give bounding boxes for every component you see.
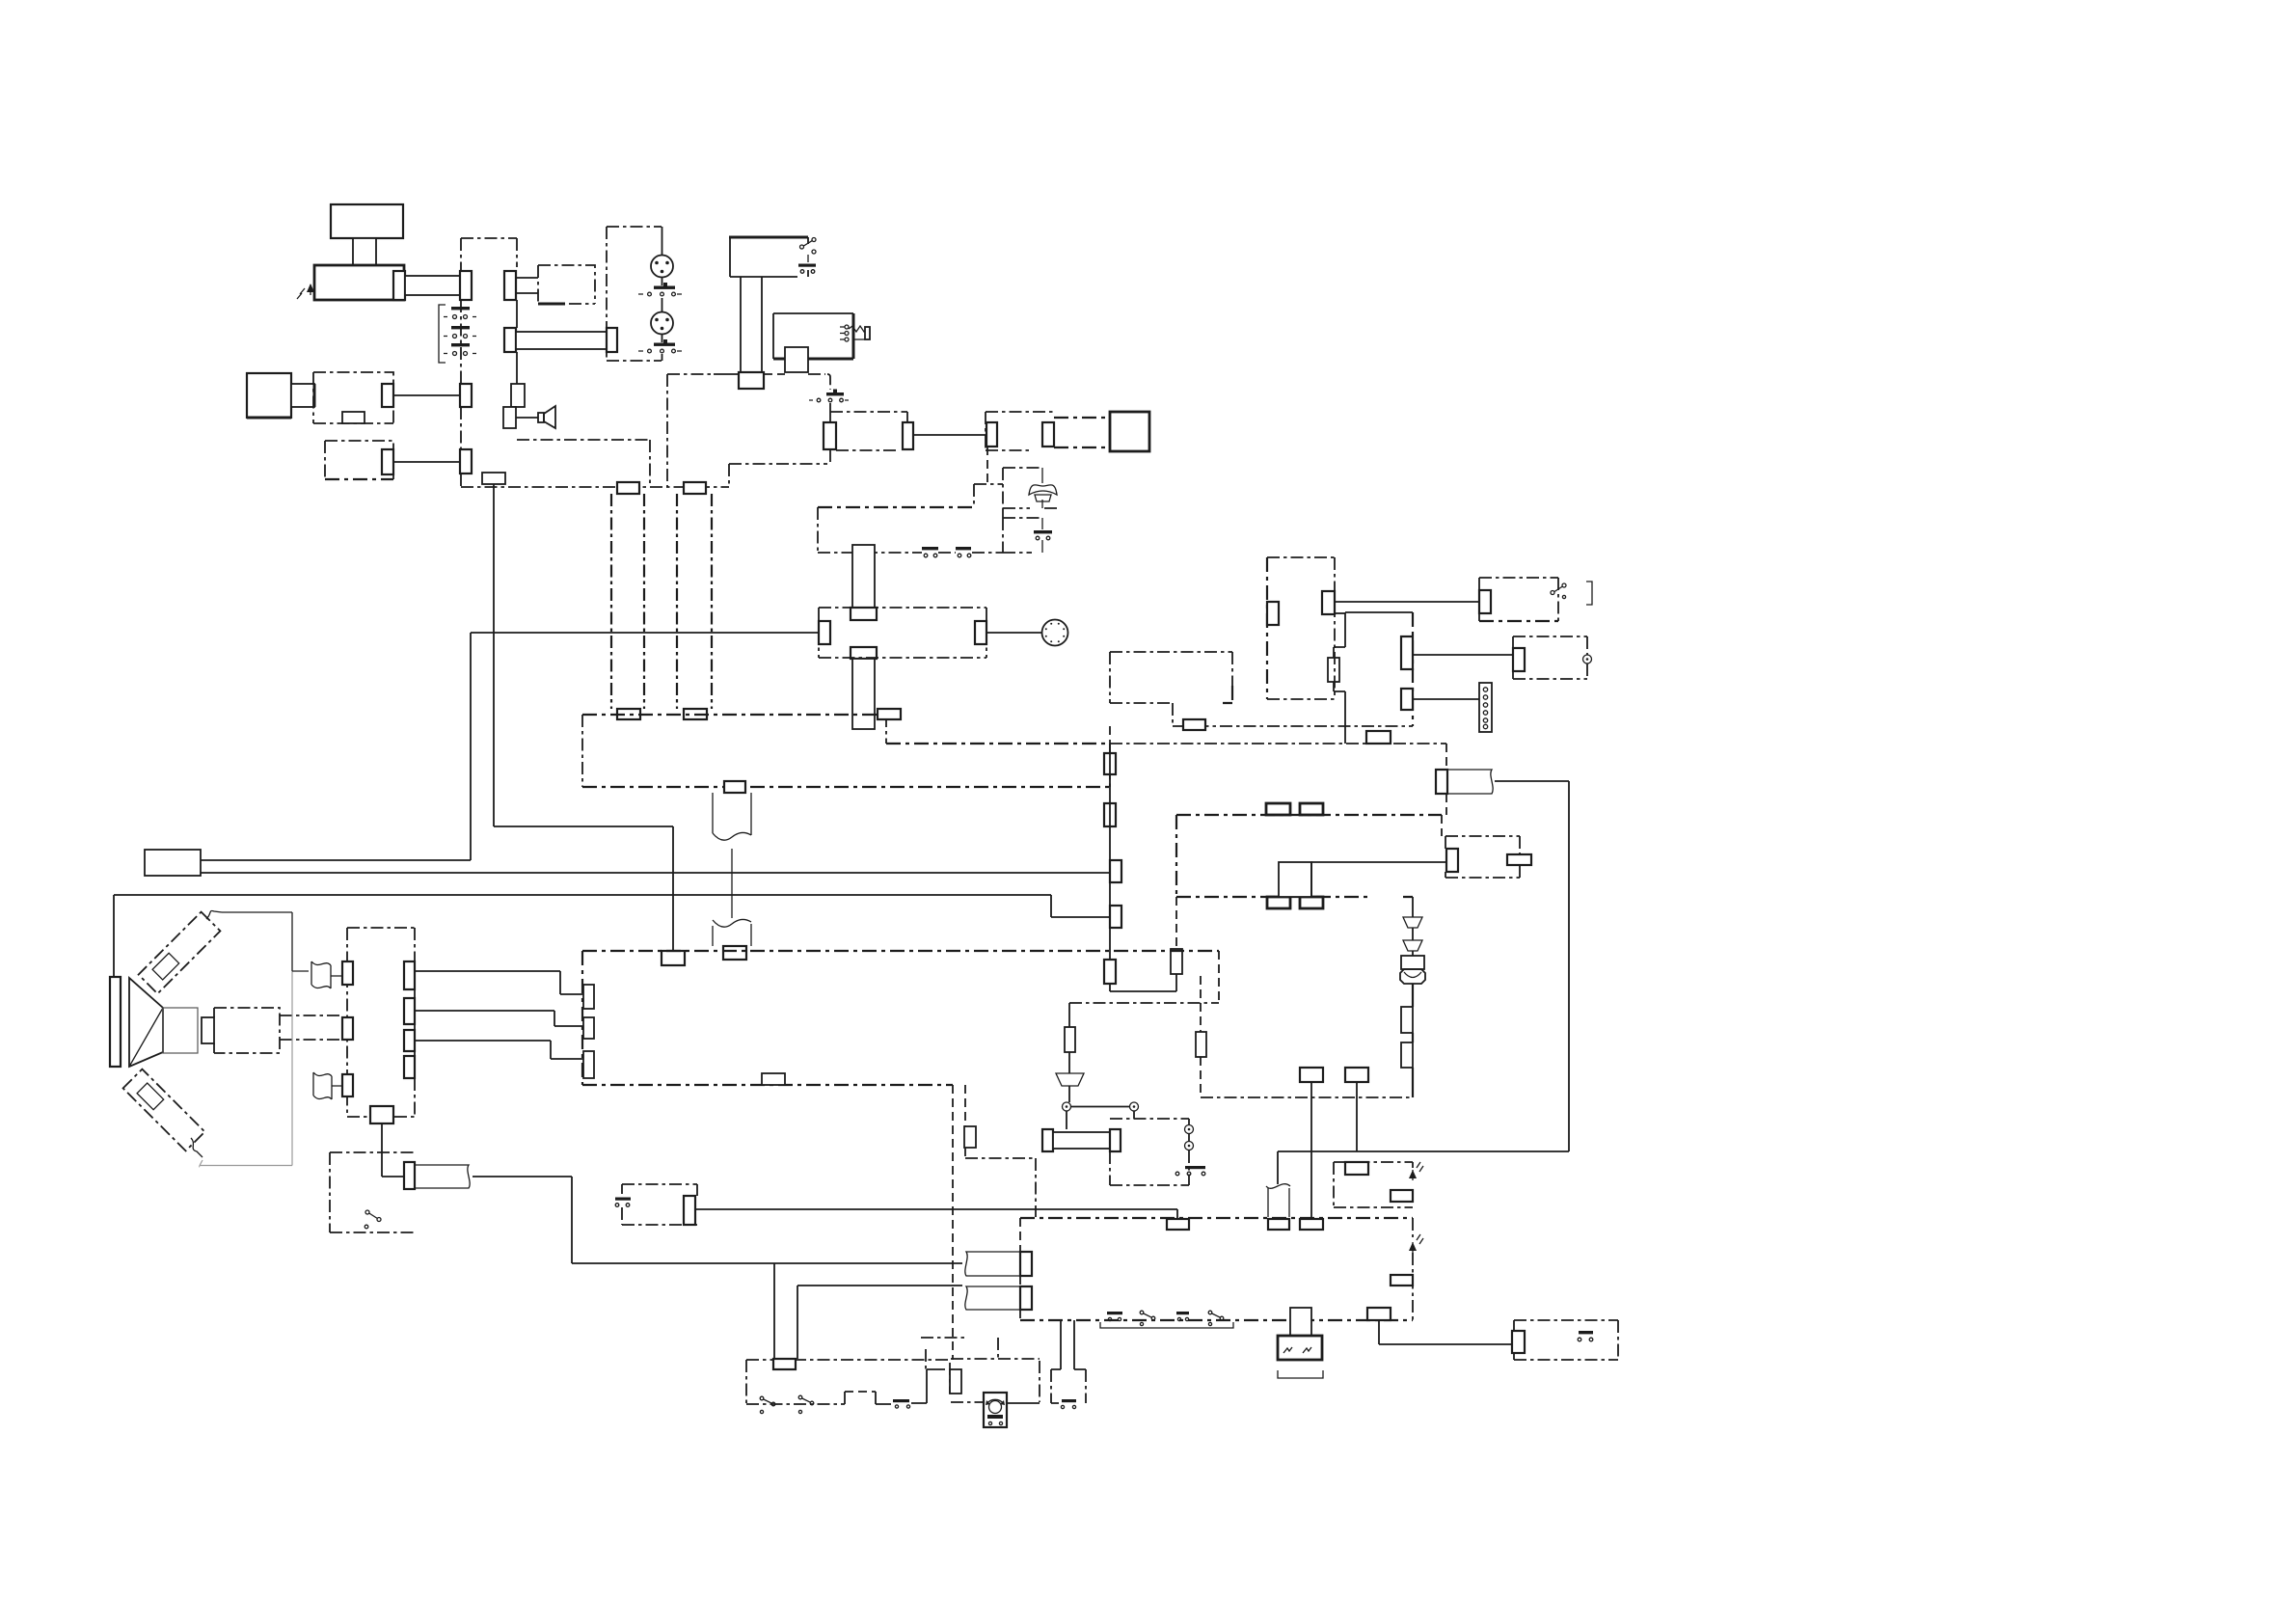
speaker PCB dash box DB1	[830, 412, 907, 450]
dash-dot line y1138	[1201, 1096, 1413, 1098]
panel connector L2	[342, 1017, 353, 1040]
wire CB15 to header	[1413, 698, 1479, 700]
XLR jack J1	[651, 256, 673, 278]
indicator panel box with LED	[314, 265, 404, 300]
driver transistor block	[1279, 862, 1311, 897]
piezo tweeter bottom	[123, 1069, 205, 1157]
mute PCB dash box	[1003, 518, 1042, 553]
wire M5 to AC box B7	[1379, 1320, 1512, 1344]
step link with switch SW22	[845, 1369, 945, 1408]
harness W12 into M5	[965, 1286, 1032, 1310]
panel connector L1	[342, 961, 353, 985]
chain link	[1412, 951, 1414, 956]
torn cable into M5	[1266, 1184, 1290, 1217]
monitor speaker SP1	[538, 406, 555, 428]
dash-dot line y573	[818, 552, 1003, 554]
connector DB3 left	[819, 621, 830, 644]
connector at amp box top	[662, 951, 685, 965]
switch SW2a	[638, 283, 682, 296]
connector M5 right a	[1391, 1275, 1413, 1286]
bracket right of B1	[1586, 582, 1592, 605]
switch SW6b	[956, 547, 971, 557]
harness dash-dot run top	[461, 238, 517, 271]
dash corner x848	[817, 507, 819, 553]
jack PCB right with switch SW23	[1051, 1369, 1086, 1409]
meter PCB dash box	[950, 1359, 1040, 1402]
jack PCB dash box	[538, 265, 595, 304]
connector on x1245	[1196, 1032, 1206, 1057]
harness W1 connector right	[460, 271, 472, 300]
phones PCB dash box B2	[1513, 636, 1587, 679]
harness W1 connector left	[393, 271, 405, 300]
thermal PCB dash box DB5	[1445, 836, 1520, 878]
pilot PCB dash box above M5	[1334, 1162, 1413, 1207]
rotary switch VR1	[1042, 620, 1068, 646]
preamp link corner	[1345, 612, 1413, 726]
dash-dot line y753	[1173, 725, 1413, 727]
connector right edge CB13	[1110, 906, 1121, 928]
connector on line y753	[1183, 719, 1205, 730]
switch row: toggle SWd	[1208, 1311, 1224, 1325]
wire CB14 to B2	[1413, 654, 1513, 656]
connector B7	[1512, 1331, 1525, 1353]
connector M5 top c	[1300, 1219, 1323, 1230]
switch SW6a	[922, 547, 938, 557]
toggle switch in B8	[365, 1210, 381, 1229]
switch row: toggle SWb	[1140, 1311, 1155, 1325]
switch row in M5: switch SWa	[1107, 1312, 1122, 1321]
slide switch SW1b	[444, 326, 476, 338]
connector B3 left	[1267, 602, 1279, 625]
woofer magnet	[163, 1008, 198, 1053]
crossover dash links	[280, 1015, 342, 1040]
connector M4 right	[1104, 960, 1116, 984]
fuse F2	[903, 422, 913, 449]
capacitor block	[1401, 956, 1424, 969]
connector DB2 left	[986, 422, 997, 447]
dash-dot line y526	[818, 506, 974, 508]
link DB2 down	[974, 447, 1003, 507]
harness W11 into M5	[965, 1252, 1032, 1276]
chain top link	[1412, 897, 1414, 917]
connector on main board bottom	[724, 781, 745, 793]
wire XLR chain	[662, 227, 663, 361]
phone jack	[840, 325, 870, 341]
connector M4 left a	[583, 985, 594, 1009]
torn cable end connector	[723, 946, 746, 960]
resistor chain x1220	[1110, 897, 1182, 991]
panel connector R2	[404, 998, 415, 1024]
main harness dash-dot line y505	[461, 486, 729, 488]
power transformer top box	[331, 204, 403, 238]
panel connector R1	[404, 961, 415, 989]
relay PCB dash box DB2	[986, 412, 1054, 450]
footswitch PCB dash box B1	[1479, 578, 1558, 621]
switch row: switch SWc	[1176, 1312, 1189, 1321]
connector CB14	[1401, 636, 1413, 669]
level meter	[984, 1393, 1007, 1427]
diode D11	[1403, 940, 1422, 951]
connector M4 left c	[583, 1051, 594, 1078]
LED D20 on M5 edge	[1409, 1234, 1423, 1253]
chassis panel box	[729, 237, 808, 277]
panel bottom connector	[370, 1106, 393, 1123]
harness column end connector	[739, 372, 764, 389]
wire meter right	[1007, 1402, 1040, 1404]
dash-dot link y481	[729, 449, 830, 487]
wire DB3 to rotary	[986, 632, 1041, 634]
connector M5 bottom b	[1367, 1308, 1391, 1320]
harness W2 left connector	[504, 328, 516, 352]
harness W2 right connector	[607, 328, 617, 352]
wire W10 to M5	[473, 1177, 962, 1263]
GEQ PCB dash box DB4	[1110, 652, 1232, 726]
connector CN3	[382, 449, 393, 474]
connector DB2 right	[1042, 422, 1054, 447]
toggle SW20	[760, 1396, 775, 1413]
wire piezo bottom (grey)	[200, 971, 292, 1167]
connector pilot PCB right	[1391, 1190, 1413, 1202]
slide switch SW1c	[444, 343, 476, 356]
connector M3 bottom a	[1267, 897, 1290, 908]
connector B3 right	[1322, 591, 1335, 614]
switch on B6	[615, 1198, 631, 1207]
corner x1500 down	[1445, 744, 1447, 815]
column T1	[851, 545, 877, 620]
vertical x1245	[1200, 976, 1202, 1097]
amp heatsink block	[1110, 412, 1149, 451]
capacitor C11	[1401, 1042, 1413, 1068]
switch bracket	[439, 305, 446, 363]
footswitch jack PCB dash box	[1110, 1119, 1189, 1185]
stem from M5 to jack PCB	[1061, 1320, 1074, 1369]
junction box left	[145, 850, 201, 876]
connector CB4 on line	[482, 473, 505, 484]
panel connector L3	[342, 1074, 353, 1096]
M5 dash box	[1020, 1218, 1413, 1320]
right rail vertical	[1568, 781, 1570, 1151]
long wire y1254	[695, 1209, 1177, 1219]
long wire y656	[201, 633, 819, 860]
XLR jack J2	[651, 312, 673, 335]
harness pair B end connector	[684, 709, 707, 719]
connector pair above M5 a	[1300, 1068, 1323, 1082]
pin header	[1479, 683, 1492, 732]
transformer stem	[353, 238, 376, 271]
AC select dash box B7	[1514, 1320, 1618, 1360]
switch row bracket	[1100, 1322, 1233, 1328]
resistor ladder left	[1334, 612, 1345, 744]
connector M3 bottom b	[1300, 897, 1323, 908]
wire to monitor speaker	[516, 417, 538, 419]
LED D1	[297, 284, 314, 299]
double harness to amp block	[1054, 418, 1110, 447]
switch SW2b	[638, 339, 682, 353]
dash-dot line y771 right	[1110, 743, 1446, 744]
wire W8 to right rail	[1495, 780, 1569, 782]
speaker baffle	[110, 977, 121, 1067]
connector CB15	[1401, 689, 1413, 710]
bus wire A	[201, 872, 1110, 874]
connector M4 left b	[583, 1017, 594, 1039]
connector M3 top a	[1266, 803, 1290, 815]
wire panel bottom	[382, 1123, 404, 1177]
connector DB5 right	[1507, 854, 1531, 865]
effects PCB dash box B3	[1267, 557, 1335, 699]
resistor R10	[1328, 658, 1339, 682]
connector right edge CB11	[1104, 803, 1116, 826]
mains transformer	[1278, 1308, 1323, 1378]
harness pair B verticals	[677, 494, 712, 709]
wires speaker jacks to M4	[415, 971, 583, 1059]
inlet connector	[291, 384, 314, 407]
wire F2 to DB2	[913, 434, 986, 436]
connector B2 left	[1513, 648, 1525, 671]
wire bus from CB4 down	[494, 484, 673, 951]
connector CN1	[382, 384, 393, 407]
bus wire B	[114, 895, 1110, 977]
connector CB6	[684, 482, 706, 494]
connector CB3	[503, 407, 516, 428]
column T2	[851, 647, 877, 729]
panel box M6L	[746, 1360, 952, 1404]
woofer connector	[202, 1017, 214, 1043]
connector CN4	[460, 449, 472, 474]
output board dash box M4	[582, 951, 1219, 1085]
main board dash box	[582, 715, 1110, 787]
LED D21	[1409, 1162, 1423, 1180]
dash-dot corner x692	[667, 374, 714, 487]
toggle switch in B1	[1551, 583, 1566, 599]
wire CN1	[393, 394, 460, 396]
chain bottom lead	[1412, 1068, 1414, 1097]
piezo tweeter top	[139, 910, 222, 993]
torn cable down from main board	[713, 793, 751, 946]
connector M3 top b	[1300, 803, 1323, 815]
resistor R20 chain	[1056, 1003, 1084, 1102]
wire right rail to torn cable	[1278, 1151, 1569, 1184]
connector CN2	[460, 384, 472, 407]
torn lead at L3	[313, 1072, 342, 1099]
pilot lamp	[1400, 969, 1425, 984]
footswitch dash box B6	[622, 1184, 697, 1225]
slide switch SW1a	[444, 307, 476, 319]
wire CN3	[393, 461, 460, 463]
connector on line y771	[1366, 731, 1391, 744]
connector CB1	[504, 271, 516, 300]
staircase links above panel	[921, 1338, 998, 1369]
harness column	[741, 277, 762, 372]
chain thick lead	[1412, 984, 1414, 1007]
toggle SW21	[798, 1395, 814, 1413]
horn tweeter	[1029, 468, 1057, 508]
torn lead to jack panel	[292, 961, 342, 988]
connector M4 bottom	[762, 1073, 785, 1085]
connector on main board top	[878, 709, 901, 719]
jack on B2 right	[1583, 655, 1592, 663]
M4 descent chain	[953, 1085, 1036, 1360]
connector CB5	[617, 482, 639, 494]
switch SW4	[809, 390, 849, 402]
power PCB dash box	[313, 372, 393, 423]
woofer cone	[129, 978, 163, 1067]
harness W10	[404, 1162, 470, 1189]
wire x536 vertical	[516, 300, 518, 384]
power amp dash box M3	[1176, 815, 1442, 897]
harness pair A end connector	[617, 709, 640, 719]
input jack dash-dot enclosure	[607, 227, 662, 361]
selector PCB dash box DB3	[819, 608, 986, 658]
wire from connector a down	[1310, 1082, 1312, 1219]
harness dash-dot column x478	[460, 300, 462, 487]
x1151 vertical seam	[1109, 726, 1111, 991]
aux PCB dash box	[325, 441, 393, 479]
fuse F1	[824, 422, 836, 449]
connector B1 left	[1479, 590, 1491, 613]
dash corner x861	[827, 374, 830, 390]
dash-dot link y456	[517, 440, 650, 487]
AC inlet box	[247, 373, 291, 418]
wires CB1 to jack PCB	[516, 278, 538, 293]
wire B3 lower stub	[1335, 612, 1345, 614]
wire to fuse	[829, 403, 831, 422]
harness W8 with break	[1436, 770, 1493, 794]
switch on footswitch PCB	[1175, 1166, 1205, 1176]
capacitor C10	[1401, 1007, 1413, 1033]
connector pair above M5 b	[1345, 1068, 1368, 1082]
switch in B7	[1578, 1331, 1593, 1341]
panel connector R4	[404, 1056, 415, 1078]
panel connector R3	[404, 1030, 415, 1051]
speaker jack panel dash box	[347, 928, 415, 1117]
wire under jack plate	[764, 373, 825, 375]
connector DB3 right	[975, 621, 986, 644]
wire y894 to DB5	[1311, 861, 1446, 863]
connector B6	[684, 1196, 695, 1225]
aux input dash box B8	[330, 1152, 415, 1232]
jack plate sub connector	[785, 347, 808, 372]
jacks on footswitch PCB	[1185, 1125, 1194, 1150]
woofer network dash box	[214, 1008, 280, 1053]
wire W12 feed	[797, 1285, 962, 1286]
wire jack to harness	[1067, 1111, 1134, 1129]
speaker jacks pair	[1063, 1102, 1139, 1111]
connector M5 top b	[1268, 1219, 1289, 1230]
diode D10	[1403, 917, 1422, 928]
harness W2 body	[516, 332, 607, 349]
connector meter PCB	[950, 1369, 961, 1394]
connector CB2	[511, 384, 525, 407]
connector right edge CB10	[1104, 753, 1116, 774]
feed wires into M6L	[774, 1263, 797, 1359]
connector M5 top a	[1167, 1219, 1189, 1230]
jack plate box	[773, 313, 853, 359]
harness W9	[1042, 1129, 1121, 1151]
horn PCB dash box	[1003, 468, 1057, 518]
connector pilot PCB	[1345, 1162, 1368, 1175]
switch SW5	[1034, 518, 1052, 553]
chain link	[1412, 1033, 1414, 1042]
wire y388	[714, 373, 740, 375]
harness W1 body	[405, 276, 460, 295]
connector right edge CB12	[1110, 860, 1121, 882]
wire piezo top	[222, 912, 292, 971]
harness pair A verticals	[611, 494, 644, 709]
wire from connector b down	[1356, 1082, 1358, 1151]
connector DB5 left	[1446, 849, 1458, 872]
wire B3 to B1	[1335, 601, 1479, 603]
chain link	[1412, 928, 1414, 940]
connector M6L top	[773, 1359, 796, 1369]
power switch SW3	[798, 238, 816, 274]
